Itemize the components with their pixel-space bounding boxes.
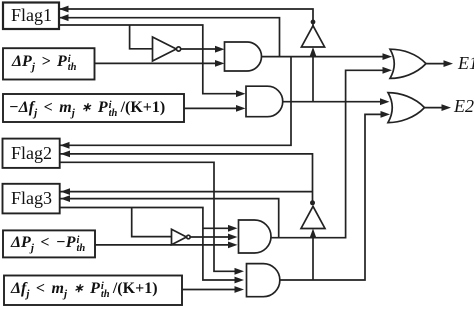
wire A4 output branch up to U4 input [310,229,317,281]
AND gate A3 [239,220,272,253]
wire U1 output to A1 input1 [181,46,225,53]
AND gate A1 [225,42,262,71]
label condition -df<m*Pth/(K+1) [9,99,165,118]
wire U3 output to Flag1 input1 [59,6,313,26]
label condition df<m*Pth/(K+1) [11,280,158,299]
AND gate A2 [246,86,283,117]
wire A1 output feedback to Flag1 input2 [59,14,280,56]
wire Flag3 output branch to U2 input [132,208,172,237]
wire Flag1 output to A2 input1 [59,25,246,97]
wire A2 output to O2 input1 [283,98,390,105]
box condition df<m*Pth/(K+1) [4,276,182,306]
box Flag2 [3,139,60,168]
box Flag1 [3,3,59,30]
label condition dP>Pth [12,53,77,72]
label Flag2 [11,143,52,164]
wire O1 output to E1 [426,60,453,67]
wire U4 output to Flag2 input2 [61,151,313,203]
wire Flag2 output to A4 input1 [60,162,244,274]
OR gate O2 [388,93,425,123]
label output E1 [458,53,474,74]
wire A3 output feedback to Flag3 input2 [61,195,279,237]
wire -df output to A2 input2 [184,105,246,112]
wire U4 output branch to Flag3 input1 [61,188,313,195]
wire U2 output to A3 input2 [190,234,237,241]
wire Flag3 output to A3 input1 and A4 input2 [60,208,244,284]
box condition dP>Pth [3,48,95,79]
wire dP>Pth output to A1 input2 [95,60,225,67]
wire df<m*Pth output to A4 input3 [182,286,244,293]
box Flag3 [3,184,60,214]
box condition dP<-Pth [3,230,95,257]
OR gate O1 [390,49,426,78]
wire Flag1 output branch to U1 input [130,25,153,49]
box condition -df<m*Pth/(K+1) [3,94,184,122]
wire O2 output to E2 [425,104,452,111]
wire A4 output to O2 input2 [280,111,390,280]
label Flag3 [11,188,52,209]
wire dP<-Pth output to A3 input3 [95,242,238,249]
buffer U4 (up-pointing, feedback to Flag2) [301,200,325,228]
buffer U3 (up-pointing, feedback to Flag1) [301,20,324,48]
label Flag1 [11,5,52,26]
AND gate A4 [246,264,279,297]
wire A3 output to O1 input2 [271,67,392,238]
wire A1 output to O1 input1 [262,53,393,60]
inverter U2 (NOT after Flag3) [172,229,191,244]
label condition dP<-Pth [11,234,85,253]
inverter U1 (NOT after Flag1) [153,37,181,61]
label output E2 [454,96,474,117]
wire A2 output branch up to U3 input [310,47,317,102]
wire A1 output feedback down to Flag2 input1 [60,57,291,149]
